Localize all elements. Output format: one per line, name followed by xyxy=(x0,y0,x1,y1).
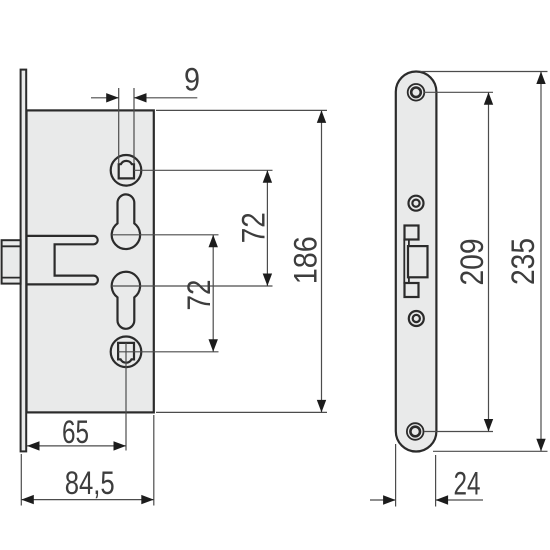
leader screw bottom xyxy=(424,431,493,433)
dimension line 235 xyxy=(540,72,542,452)
svg-text:9: 9 xyxy=(184,62,200,98)
svg-text:235: 235 xyxy=(505,238,541,285)
svg-text:209: 209 xyxy=(454,239,490,286)
latch tail fork inside case xyxy=(27,236,98,285)
arrows 209 xyxy=(484,92,493,105)
leader line bottom hole xyxy=(118,351,218,353)
dimension texts left figure xyxy=(62,62,324,501)
extension lines 84,5 xyxy=(21,415,154,506)
arrow 9 left xyxy=(106,93,119,102)
arrow 9 right xyxy=(134,93,147,102)
svg-text:65: 65 xyxy=(62,414,89,450)
leader screw top xyxy=(424,91,493,93)
dimension line 209 xyxy=(488,92,490,431)
screw hole bottom xyxy=(407,423,424,440)
leader plate top xyxy=(420,71,548,73)
dimension line 9 xyxy=(91,97,197,99)
dimension line 65 xyxy=(27,445,126,447)
arrows 72 upper xyxy=(263,170,272,183)
dimension line 24 xyxy=(370,499,483,501)
follower hole top square with arc notch xyxy=(119,161,134,179)
svg-text:24: 24 xyxy=(454,466,481,502)
latch top tab xyxy=(405,226,419,240)
latch bolt head xyxy=(2,240,21,283)
cylinder hole upper (stem up) xyxy=(112,194,140,249)
screw hole top xyxy=(408,84,425,101)
cylinder hole lower (stem down) xyxy=(112,272,140,329)
lock case body xyxy=(27,110,154,412)
svg-text:72: 72 xyxy=(181,280,217,311)
extension line 65 (through bottom square) xyxy=(125,343,127,451)
faceplate edge strip xyxy=(21,70,27,452)
svg-text:72: 72 xyxy=(235,212,271,243)
arrowheads left figure xyxy=(21,93,326,504)
extension lines for 9 xyxy=(119,88,134,164)
leader line top hole xyxy=(134,169,273,171)
dimension line 72 lower xyxy=(212,235,214,352)
arrows 235 xyxy=(536,72,545,85)
arrows 65 xyxy=(27,441,40,450)
small hole lower xyxy=(409,311,424,326)
extension lines 186 xyxy=(156,110,327,412)
arrows 24 xyxy=(383,495,396,504)
arrows 72 lower xyxy=(209,235,218,248)
latch bolt rectangle xyxy=(408,246,428,277)
latch on plate: guide strip xyxy=(404,240,409,284)
follower hole bottom (circle) xyxy=(111,337,142,368)
arrowheads right figure xyxy=(383,72,546,505)
latch bottom tab xyxy=(405,283,419,297)
svg-text:84,5: 84,5 xyxy=(65,465,115,501)
dimension line 84,5 xyxy=(21,499,154,501)
svg-text:186: 186 xyxy=(288,236,324,284)
dimension line 72 upper xyxy=(266,170,268,286)
arrows 186 xyxy=(317,110,326,123)
leader line lower cylinder xyxy=(112,285,273,287)
leader plate bottom xyxy=(433,450,548,452)
extension lines 24 xyxy=(396,444,436,507)
latch bolt bevel lines xyxy=(2,246,21,277)
faceplate plate xyxy=(396,72,437,452)
small hole upper xyxy=(409,196,424,211)
dimension texts right figure xyxy=(454,238,542,502)
follower hole bottom square with arc notch xyxy=(118,343,134,363)
dimension line 186 xyxy=(321,110,323,412)
leader line upper cylinder xyxy=(112,234,219,236)
follower hole top (circle) xyxy=(111,155,142,186)
arrows 84,5 xyxy=(21,495,34,504)
